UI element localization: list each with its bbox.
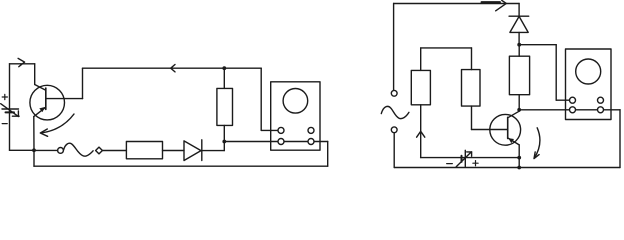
battery B2 short plate (−) — [461, 156, 463, 162]
battery B2 long plate (+) — [464, 150, 466, 166]
junction dot (top of R1) — [222, 66, 226, 70]
current arrow (right) on top wire — [482, 0, 507, 10]
label: − of battery B2 — [447, 163, 453, 165]
wire: left vertical rail (left circuit) — [9, 64, 11, 151]
transistor Q1 emitter arrow (points to base: PNP) — [39, 107, 45, 112]
meter M2 dial — [576, 59, 601, 84]
wire: corner up to node — [223, 142, 225, 151]
resistor R2 (box) — [126, 142, 162, 159]
wire: bottom-left link — [10, 149, 35, 151]
AC source tilde — [381, 106, 409, 118]
current arrow (right) on top-left wire — [18, 58, 25, 66]
battery B1 short plate (−) — [6, 111, 15, 113]
wire: collector riser — [34, 64, 36, 85]
meter M1 box — [271, 82, 320, 150]
wire: lower terminal through-wire to right frame — [519, 109, 620, 111]
wire: base lead left — [472, 129, 508, 131]
meter M1 dial — [283, 89, 308, 114]
wire: right frame down — [619, 110, 621, 168]
wire: base riser up — [82, 68, 84, 98]
meter M1 terminal upper-left — [278, 127, 284, 133]
AC source lower terminal — [391, 127, 397, 133]
wire: emitter down to bottom — [518, 145, 520, 168]
meter M1 terminal lower-left — [278, 139, 284, 145]
wire: diode to corner — [202, 150, 225, 152]
flexible lead squiggle — [64, 143, 94, 156]
curved adjustment arrow (right circuit) — [534, 128, 540, 159]
wire: R1 top riser — [223, 68, 225, 88]
junction dot (emitter / bottom node) — [32, 148, 36, 152]
wire: bottom horizontal (right circuit) — [394, 167, 620, 169]
battery B1 variable diagonal arrow — [1, 104, 19, 117]
wire: top horizontal (right circuit) — [394, 3, 519, 5]
wire: node A into R3 — [518, 45, 520, 57]
transistor Q2 emitter lead — [508, 138, 520, 145]
wire: R1R bottom riser — [420, 105, 422, 158]
wire: diode to node A — [518, 32, 520, 44]
junction dot collector node — [517, 108, 521, 112]
meter M1 terminal upper-right — [308, 127, 314, 133]
diode D1 triangle — [184, 141, 201, 161]
wire: meter feed down — [260, 68, 262, 130]
wire: to resistor R2 — [102, 150, 126, 152]
wire: R2 to diode — [163, 150, 185, 152]
wire: bottom return — [34, 165, 328, 167]
label: − of battery B1 — [2, 123, 7, 125]
wire: node A to meter riser — [519, 44, 556, 46]
curved adjustment arrow (left circuit) — [40, 114, 74, 136]
wire: battery row — [421, 157, 520, 159]
wire: bridge between resistor tops — [421, 47, 472, 49]
wire: R1R top riser — [420, 48, 422, 71]
transistor Q2 base bar — [507, 117, 509, 138]
wire: bottom left stub up — [33, 150, 35, 166]
resistor R2R (box) — [462, 70, 481, 107]
transistor Q2 (PNP) circle — [490, 114, 521, 145]
wire: right frame to diode — [518, 4, 520, 17]
terminal (round jack) — [58, 148, 64, 154]
wire: R3 bottom to collector node — [518, 95, 520, 110]
resistor R1R (box) — [411, 70, 430, 104]
wire: meter feed right — [261, 129, 279, 131]
wire: R2R top riser — [471, 48, 473, 70]
terminal (diamond jack) — [96, 147, 103, 154]
transistor Q2 emitter arrow (points to base: PNP) — [508, 138, 514, 143]
meter M2 terminal upper-right — [598, 97, 604, 103]
meter M2 terminal lower-right — [598, 107, 604, 113]
junction dot bottom wire — [517, 166, 521, 170]
wire: emitter riser down — [33, 117, 35, 151]
meter M2 terminal lower-left — [570, 107, 576, 113]
transistor Q2 collector lead — [518, 110, 520, 111]
transistor Q1 (PNP) circle — [30, 85, 65, 120]
wire: base riser up to R2R — [471, 106, 473, 129]
junction dot node A — [517, 43, 521, 47]
wire: top-left horizontal — [10, 63, 35, 65]
current arrow (left) on top wire — [171, 65, 175, 72]
diode D2 triangle — [510, 16, 528, 32]
wire: R1 bottom riser — [223, 125, 225, 141]
meter M1 terminal lower-right — [308, 139, 314, 145]
junction dot (R1 bottom node) — [222, 140, 226, 144]
resistor R1 (box) — [217, 88, 233, 125]
transistor Q1 collector lead — [35, 85, 46, 91]
transistor Q1 base bar — [45, 88, 47, 109]
junction dot battery row — [517, 156, 521, 160]
label: + of battery B2 — [473, 161, 478, 166]
wire: into meter upper-left terminal — [556, 99, 570, 101]
battery B1 long plate (+) — [2, 108, 19, 110]
wire: lower terminal through-wire — [224, 141, 327, 143]
wire: right drop to bottom — [327, 142, 329, 167]
diode D2 cathode bar — [509, 15, 529, 17]
meter M2 box — [566, 49, 612, 120]
wire: left frame down to source — [393, 4, 395, 91]
transistor Q1 emitter lead — [34, 107, 46, 116]
resistor R3 (box) — [509, 56, 529, 94]
current arrow (up) on riser — [417, 131, 425, 137]
wire: left frame down to bottom — [393, 133, 395, 168]
wire: to terminal — [34, 149, 58, 151]
diode D1 cathode bar — [201, 140, 203, 161]
battery B2 variable diagonal arrow — [456, 152, 471, 167]
meter M2 terminal upper-left — [570, 97, 576, 103]
wire: meter riser down — [555, 45, 557, 100]
label: + of battery B1 — [2, 94, 7, 99]
AC source upper terminal — [391, 90, 397, 96]
wire: long top horizontal — [83, 67, 262, 69]
wire: base lead out to riser — [46, 98, 83, 100]
